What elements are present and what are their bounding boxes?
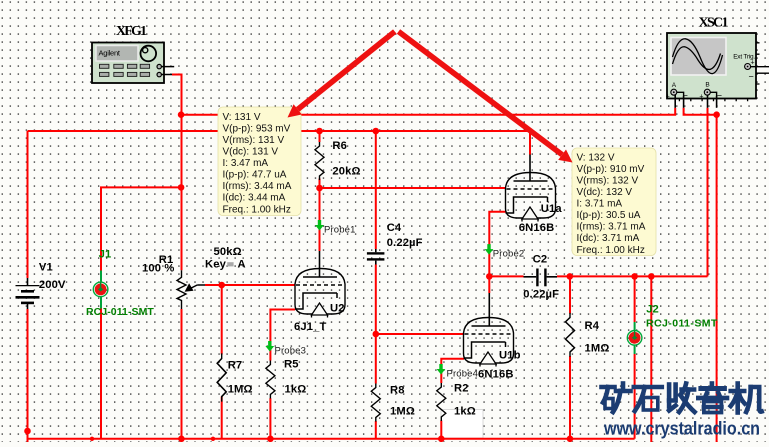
wire ground bottom rail: [28, 438, 635, 440]
probe Probe1: [315, 220, 324, 231]
svg-text:V(rms): 131 V: V(rms): 131 V: [223, 135, 285, 146]
wire B+ supply horizontal: [28, 131, 531, 155]
node battery bottom junction: [24, 428, 31, 435]
watermark 矿石收音机 (drawn strokes): [602, 384, 762, 413]
connector J1 leads: [100, 271, 102, 309]
svg-text:Probe4: Probe4: [447, 369, 479, 380]
svg-text:I(dc): 3.44 mA: I(dc): 3.44 mA: [223, 193, 286, 204]
char kuang: [602, 384, 631, 413]
wire input to J1: [101, 187, 181, 270]
annotation arrow right branch: [399, 32, 573, 163]
svg-text:J1: J1: [99, 249, 112, 261]
char shi: [634, 387, 662, 411]
svg-text:U2: U2: [330, 303, 345, 315]
svg-text:V(dc): 131 V: V(dc): 131 V: [223, 147, 279, 158]
wire grid node down to R7: [221, 285, 223, 439]
node R6 bottom junction: [316, 185, 323, 192]
svg-text:C4: C4: [387, 222, 402, 234]
node R6 top junction: [316, 128, 323, 135]
wire R1 bottom to rail: [181, 309, 183, 439]
char ji: [731, 384, 762, 413]
char shou: [669, 384, 695, 413]
wire R6 to U1a grid: [320, 187, 506, 189]
resistor R7: [217, 353, 226, 401]
scope trace wave 2: [673, 47, 721, 70]
connector J2 (RCJ-011-SMT): [627, 331, 642, 346]
svg-text:I(rms): 3.44 mA: I(rms): 3.44 mA: [223, 181, 292, 192]
XFG1 stub top: [161, 66, 174, 68]
svg-text:V(p-p): 953 mV: V(p-p): 953 mV: [223, 123, 291, 134]
svg-text:50kΩ: 50kΩ: [214, 246, 242, 258]
svg-text:+: +: [699, 94, 703, 101]
wire XFG1 output down to R1: [172, 75, 182, 271]
svg-text:Freq.: 1.00 kHz: Freq.: 1.00 kHz: [223, 204, 291, 215]
annotation arrow left branch: [288, 32, 395, 118]
probe Probe3: [265, 341, 274, 352]
svg-text:1kΩ: 1kΩ: [285, 384, 307, 396]
svg-text:+: +: [666, 94, 670, 101]
svg-text:U1b: U1b: [499, 350, 521, 362]
resistor R2: [437, 383, 446, 421]
potentiometer R1: [177, 270, 205, 309]
wire plate U2 riser: [319, 188, 321, 251]
wire U1b cathode to R2: [441, 359, 464, 439]
svg-text:C2: C2: [533, 254, 548, 266]
svg-text:6N16B: 6N16B: [519, 222, 555, 234]
capacitor C4: [367, 249, 385, 265]
node rail R1 junction: [178, 436, 185, 443]
svg-text:6N16B: 6N16B: [478, 369, 514, 381]
svg-text:I(rms): 3.71 mA: I(rms): 3.71 mA: [577, 222, 646, 233]
svg-text:Freq.: 1.00 kHz: Freq.: 1.00 kHz: [577, 245, 645, 256]
XFG1 stub bottom: [161, 74, 172, 76]
node J2 junction: [631, 273, 638, 280]
svg-text:100 %: 100 %: [142, 263, 174, 275]
svg-text:−: −: [749, 72, 754, 82]
svg-text:A: A: [238, 259, 246, 271]
svg-text:Probe3: Probe3: [275, 346, 307, 357]
node rail R2 junction: [438, 436, 445, 443]
svg-text:V(dc): 132 V: V(dc): 132 V: [577, 187, 633, 198]
wire R4 leads: [569, 276, 571, 438]
wire output ground drop to bottom edge: [650, 276, 652, 442]
svg-text:I: 3.71 mA: I: 3.71 mA: [577, 199, 623, 210]
wire R6 leads: [319, 131, 321, 188]
resistor R8: [371, 384, 380, 422]
svg-text:J2: J2: [646, 304, 659, 316]
svg-text:RCJ-011-SMT: RCJ-011-SMT: [86, 306, 154, 318]
wire R1 wiper to U2 grid: [205, 284, 295, 286]
node C4 top junction: [373, 128, 380, 135]
oscilloscope XSC1: [666, 16, 769, 108]
svg-text:6J1_T: 6J1_T: [294, 321, 326, 333]
svg-text:Probe2: Probe2: [493, 249, 525, 260]
resistor R5: [266, 361, 275, 399]
node R4 top junction: [567, 273, 574, 280]
svg-text:V1: V1: [39, 262, 53, 274]
svg-text:1MΩ: 1MΩ: [585, 343, 610, 355]
svg-text:www.crystalradio.cn: www.crystalradio.cn: [603, 418, 760, 439]
svg-text:R5: R5: [284, 359, 299, 371]
svg-text:Key: Key: [205, 259, 227, 271]
svg-text:V(rms): 132 V: V(rms): 132 V: [577, 176, 639, 187]
svg-text:Probe1: Probe1: [324, 225, 356, 236]
svg-text:V: 131 V: V: 131 V: [223, 112, 261, 123]
connector J2 leads: [634, 322, 636, 354]
node scope minus junction: [713, 111, 720, 118]
svg-text:1MΩ: 1MΩ: [390, 406, 415, 418]
wire scope ground vertical to bottom edge: [716, 115, 718, 442]
connector J1 (RCJ-011-SMT): [93, 282, 108, 297]
scope edge ticks: [679, 43, 759, 102]
wire scope A- jog: [684, 108, 717, 115]
svg-text:1kΩ: 1kΩ: [454, 406, 476, 418]
svg-text:I(p-p): 30.5 uA: I(p-p): 30.5 uA: [577, 210, 641, 221]
svg-text:RCJ-011-SMT: RCJ-011-SMT: [646, 318, 718, 330]
node rail R5 junction: [267, 436, 274, 443]
svg-text:1MΩ: 1MΩ: [228, 384, 253, 396]
svg-text:−: −: [717, 91, 722, 101]
svg-text:I(p-p): 47.7 uA: I(p-p): 47.7 uA: [223, 170, 287, 181]
wire battery minus down to bottom edge: [27, 309, 29, 442]
svg-text:R7: R7: [228, 360, 243, 372]
wire R8 to U1b grid: [376, 333, 464, 335]
wire output node horizontal: [489, 275, 707, 277]
wire scope A+ horizontal to input node: [181, 108, 675, 115]
U1a plate lead: [529, 155, 531, 182]
svg-text:R4: R4: [585, 320, 600, 332]
svg-text:XFG1: XFG1: [116, 24, 147, 39]
wire J2 bottom to rail: [634, 354, 636, 439]
svg-text:200V: 200V: [39, 279, 66, 291]
battery V1: [16, 278, 40, 309]
svg-text:A: A: [672, 82, 677, 89]
svg-text:I(dc): 3.71 mA: I(dc): 3.71 mA: [577, 233, 640, 244]
wire V+ rail left vertical: [27, 131, 29, 278]
node rail small junction a: [90, 437, 94, 441]
wire scope B+ vertical: [707, 108, 709, 277]
wire J1 bottom to rail: [100, 308, 102, 439]
svg-text:XSC1: XSC1: [699, 16, 729, 31]
node input/A junction: [178, 111, 185, 118]
wire C4 top: [375, 131, 377, 249]
wire U1a cathode down: [489, 212, 506, 293]
U1b plate lead: [488, 293, 490, 326]
U2 plate lead: [319, 251, 321, 278]
node R8 grid junction: [373, 331, 380, 338]
resistor R6: [315, 142, 324, 180]
char yin: [698, 384, 727, 413]
svg-text:+: +: [751, 60, 755, 67]
node rail R4 junction: [567, 436, 574, 443]
measurement box 1: [218, 107, 301, 216]
svg-text:R2: R2: [454, 383, 469, 395]
resistor R4: [566, 313, 575, 357]
faint white selection box near R2 value label: [441, 410, 483, 439]
node rail small junction b: [211, 437, 215, 441]
node U1a cathode junction: [486, 273, 493, 280]
svg-text:V: 132 V: V: 132 V: [577, 152, 615, 163]
node wiper R7 junction: [218, 282, 225, 289]
vacuum tube U2 (6J1_T): [295, 269, 345, 318]
vacuum tube U1b (6N16B): [464, 318, 514, 367]
wire C4 bottom to R8: [375, 265, 377, 439]
probe Probe2: [485, 244, 494, 255]
svg-text:0.22µF: 0.22µF: [523, 289, 559, 301]
svg-text:U1a: U1a: [541, 203, 563, 215]
svg-text:0.22µF: 0.22µF: [387, 237, 423, 249]
node ground drop junction: [648, 273, 655, 280]
scope trace wave 1: [673, 39, 723, 74]
probe Probe4: [437, 364, 446, 375]
function generator XFG1: [92, 24, 174, 83]
vacuum tube U1a (6N16B): [506, 173, 556, 222]
capacitor C2: [524, 269, 558, 287]
svg-text:B: B: [705, 82, 709, 89]
svg-text:R6: R6: [332, 140, 347, 152]
wire J2 top to output node: [634, 276, 636, 322]
svg-text:I: 3.47 mA: I: 3.47 mA: [223, 158, 269, 169]
svg-text:20kΩ: 20kΩ: [332, 165, 360, 177]
Ext Trig terminal: [745, 64, 751, 70]
measurement box 2: [572, 148, 656, 256]
svg-text:Agilent: Agilent: [99, 49, 121, 58]
svg-text:V(p-p): 910 mV: V(p-p): 910 mV: [577, 164, 645, 175]
svg-text:R8: R8: [390, 385, 405, 397]
node J1 branch junction: [178, 184, 185, 191]
wire U2 cathode to R5: [270, 310, 295, 439]
